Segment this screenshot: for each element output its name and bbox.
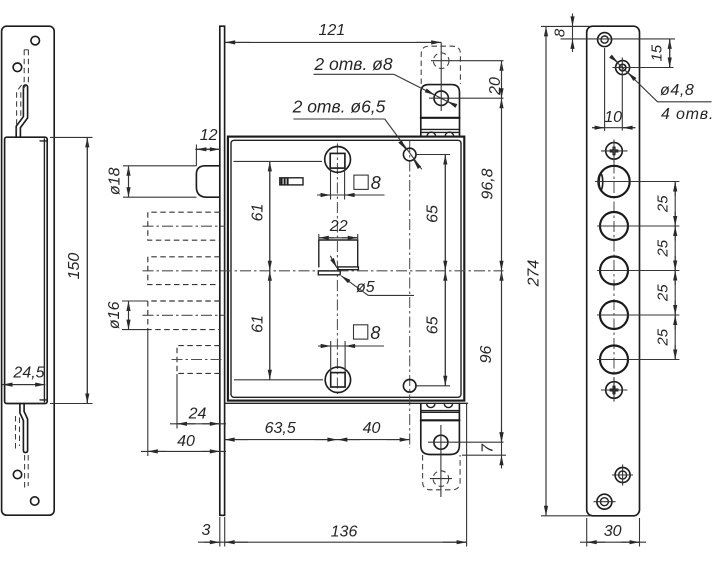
dimension 30 line [580,541,646,543]
boss rect 22 [319,240,358,267]
bottom tab rivet arcs [427,403,453,407]
top clip solid [16,85,27,137]
faceplate plate outline right view [587,26,640,516]
screw hole upper-left left view [13,63,22,72]
hole o4,8 rings [616,61,630,75]
svg-text:40: 40 [177,433,195,450]
dimension 63,5/40 line [225,439,410,441]
dimension 61 bottom line [269,271,271,380]
dimension 12 extension [195,145,197,166]
square 8 bottom dim extensions [330,341,332,372]
top clip dashed [17,50,29,131]
pin widget [280,178,303,185]
lock case profile left view [5,137,48,403]
vertical centerline right view [613,143,615,398]
dimension 24 extension [176,374,178,429]
dimension 3 line + 136 line [198,541,467,543]
hole o4,8 crosshair [613,67,674,69]
square 8 bottom dim line [318,345,384,347]
dimension 96 line [501,271,503,442]
svg-text:96: 96 [478,346,495,364]
bottom clip dashed lower [25,455,29,491]
bottom hole slot [597,494,612,509]
svg-text:8: 8 [371,173,381,193]
dimension 121 line [225,41,441,43]
dimension 96,8 line [501,98,503,271]
case inner edge line [43,139,45,402]
dimension 65 bottom extension [417,385,451,387]
dimension 10 extension [604,48,606,131]
dimension o16 extensions [122,300,148,302]
hole 4 centerline [597,314,679,316]
label 2 otv o6,5 leader [385,119,422,169]
svg-text:61: 61 [250,315,267,333]
svg-text:12: 12 [200,127,218,144]
svg-text:25: 25 [655,328,672,346]
hole 3 centerline [597,270,679,272]
dimension 150 extension top [50,136,93,138]
deadbolt 3 dashed [148,301,220,330]
svg-text:25: 25 [655,239,672,257]
dimension 22 line [319,237,358,239]
dimension 24,5 line [3,384,46,386]
label 2 otv o8 leader [394,74,454,105]
svg-text:150: 150 [66,253,83,280]
spindle hole top square [330,153,345,168]
screw hole top-right left view [31,36,40,45]
label 2 otv o6,5 underline [293,118,384,120]
deadbolt 1 centerline [143,225,225,227]
deadbolt 2 dashed [148,257,220,285]
svg-text:65: 65 [424,205,441,223]
dimension 24,5 arrows [3,384,24,386]
dimension 30 extensions [586,518,588,547]
spindle hole bottom square [331,373,345,387]
screw hole lower-left left view [13,470,21,478]
bottom clip dashed left [16,416,20,452]
square 8 top dim line [317,194,385,196]
svg-text:24,5: 24,5 [12,365,44,382]
latch lens in hole 1 [599,173,603,190]
main horizontal centerline [143,270,504,272]
svg-text:15: 15 [649,44,666,61]
dimension 274 extension bottom [541,515,590,517]
screw hole bottom-right left view [31,497,39,505]
svg-text:274: 274 [526,260,543,288]
dimension 65 top line [444,155,446,271]
deadbolt 3 centerline [143,314,225,316]
dimension 10 line [592,127,636,129]
svg-text:24: 24 [188,406,207,423]
dimension 7 arrows outside [501,442,503,455]
dimension 150 extension bottom [50,403,93,405]
top tab solid [421,85,460,137]
bottom tab vertical line [440,425,442,497]
dimension 8 extensions [561,25,591,27]
large hole 5 [600,346,628,374]
svg-text:ø16: ø16 [106,301,123,329]
large hole 3 [600,257,628,285]
svg-text:136: 136 [331,524,358,541]
screw hole top (6,5) [403,148,416,161]
dimension 15 line [669,39,671,68]
dimension 274 extension top [541,25,590,27]
vertical centerline spindle axis [336,144,338,396]
lock body inner rect [231,140,461,397]
dimension 65 top extension [417,154,451,156]
svg-text:8: 8 [552,28,569,37]
bottom tab hole [434,435,448,449]
faceplate plate outline left view [2,26,55,515]
bottom tab thin lines [421,410,460,412]
top tab thick line [421,117,460,119]
top screw hole inner [601,36,608,43]
deadbolt 4 dashed [177,346,220,374]
dimension 274 line [545,26,547,515]
case top lip [40,140,47,142]
svg-text:8: 8 [370,323,380,343]
label o5 shelf [368,294,414,296]
svg-text:96,8: 96,8 [480,168,497,199]
dimension 12 line [195,148,220,150]
dimension 3 extensions [219,517,221,547]
dimension 7 extension [462,454,506,456]
svg-text:ø4,8: ø4,8 [660,82,694,99]
dimension 150 line [86,137,88,403]
dimension 40 left extension [147,330,149,456]
center mark bottom [606,382,623,399]
large hole 2 [600,212,628,240]
dimension 24 line [170,423,226,425]
square 8 bottom symbol [354,325,368,339]
top tab vertical centerline [440,42,442,111]
svg-text:25: 25 [655,195,672,213]
case bottom lip [40,399,47,401]
top screw hole outer [598,33,612,47]
bottom clip solid [20,404,28,453]
dimension 20 line [501,61,503,98]
top tab rivet arcs [427,132,454,136]
svg-text:2 отв. ø8: 2 отв. ø8 [313,54,392,74]
bottom tab hole horizontal line [428,441,504,443]
square 8 top symbol [354,175,368,189]
large hole 1 [598,166,629,197]
bottom tab dashed hole [433,471,449,487]
vertical centerline screw axis [409,141,411,448]
dashed hole horizontal extension [431,60,504,62]
lock body outer rect [228,137,464,401]
label o5 leader1 [330,256,337,268]
top tab hole horizontal line [429,97,504,99]
svg-text:3: 3 [202,522,211,539]
boss lower plate left [318,271,340,275]
svg-text:61: 61 [250,204,267,222]
svg-text:2 отв. ø6,5: 2 отв. ø6,5 [292,97,386,117]
bottom tab thick line [421,419,460,421]
bottom tab dashed alternate [423,455,461,490]
dimension 61 bottom extension [234,379,323,381]
dimension o16 line [128,301,130,330]
label o5 leader2 [341,276,368,296]
dimension 61 top line [234,160,323,162]
dimension 22 extensions [318,234,320,240]
svg-text:40: 40 [363,420,381,437]
svg-text:22: 22 [329,218,348,235]
svg-text:121: 121 [318,22,345,39]
center mark top [606,143,623,160]
svg-text:63,5: 63,5 [265,420,296,437]
label 2 otv o8 underline [314,73,394,75]
dimension o18 extensions [123,165,196,167]
dimension 25 line [674,182,676,360]
svg-text:20: 20 [487,77,504,96]
top tab dashed alternate [421,46,460,84]
top tab thin lines [421,128,460,130]
svg-text:ø18: ø18 [107,167,124,195]
svg-text:7: 7 [480,443,497,453]
dimension o18 line [128,166,130,197]
svg-text:25: 25 [655,284,672,302]
dimension 8 line arrows outside [572,14,574,27]
top clip dashed cap [24,49,28,51]
top screw hole centerline [561,38,676,40]
bottom hole cross [615,468,630,483]
square 8 top dim extensions [330,169,332,200]
large hole 4 [600,301,628,329]
hole 2 centerline [597,225,679,227]
deadbolt 1 dashed [148,212,220,240]
spindle hole bottom circle [325,367,350,392]
hole 1 centerline [595,181,679,183]
svg-text:4 отв.: 4 отв. [661,106,712,123]
faceplate edge bar [220,26,225,515]
svg-text:30: 30 [604,523,622,540]
extension line 136 right [466,403,468,547]
hole o4,8 shelf [658,101,712,103]
boss lower plate right [338,267,358,270]
top tab dashed hole [433,53,449,69]
bottom tab solid [421,403,460,454]
hole o4,8 leader diagonal [611,56,658,102]
screw hole bottom (6,5) [403,380,416,393]
latch bolt [196,166,219,197]
deadbolt 4 centerline [172,359,225,361]
hole 5 centerline [597,359,679,361]
spindle hole top circle [325,147,351,173]
body bottom flange line [225,402,468,404]
bottom dashed hole horizontal line [430,478,452,480]
svg-text:65: 65 [424,316,441,334]
top tab hole [434,91,448,105]
svg-text:10: 10 [604,109,622,126]
dimension 40 left line [141,450,226,452]
dimension 65 bottom line [444,271,446,386]
